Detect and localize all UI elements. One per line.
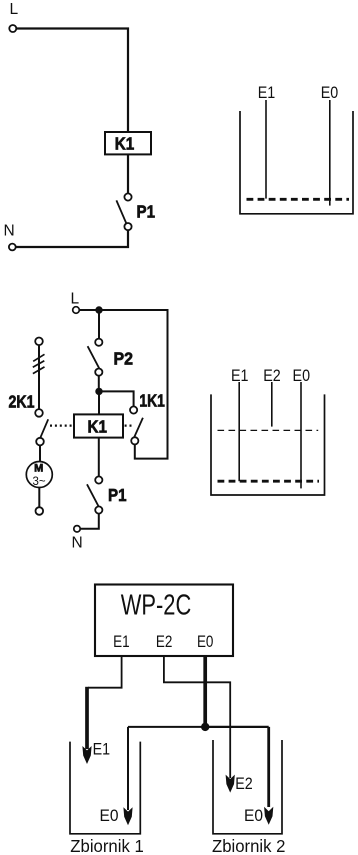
wire P2 to coil junction [98,376,100,392]
wire L feeder circuit2 [79,309,99,311]
relay coil K1 circuit1 [105,132,151,154]
terminal N circuit2 [74,526,80,532]
wire coil K1 to switch P1 [127,154,129,193]
wire 3-phase supply [38,345,40,409]
svg-text:Zbiornik 2: Zbiornik 2 [212,836,285,855]
terminal motor bottom [36,507,44,515]
svg-text:P1: P1 [137,202,156,222]
wire bypass branch [99,310,168,459]
wire E1 output [88,656,122,688]
svg-text:E2: E2 [235,775,253,793]
svg-text:P1: P1 [108,485,127,505]
svg-text:L: L [71,291,80,308]
3-phase slash marks [33,354,45,373]
svg-text:M: M [34,463,43,475]
electrode E1 tankB [238,382,240,481]
wire L to coil K1 [16,29,128,133]
upper water level tankB [218,429,319,431]
svg-text:E0: E0 [100,807,119,825]
svg-text:N: N [4,222,15,239]
terminal L circuit1 [9,25,16,32]
svg-text:E1: E1 [93,740,111,758]
wire P1 to N circuit2 [80,514,99,529]
bus E0 left [128,726,205,728]
arrowhead E1 [82,746,91,764]
probe lead E1 thick [85,687,89,749]
svg-text:N: N [72,535,83,552]
terminal L circuit2 [73,307,80,314]
controller box WP-2C [95,585,233,657]
terminal N circuit1 [9,244,16,251]
junction coil node [95,388,102,395]
svg-text:3~: 3~ [32,476,45,488]
switch P1 circuit2 [87,476,102,513]
switch P1 circuit1 [116,193,131,230]
motor M 3~ [26,462,52,488]
water level tankA [247,198,350,201]
svg-text:E1: E1 [258,84,276,102]
terminal 2K1 supply [35,338,43,346]
wire coil K1 to P1 circuit2 [98,438,100,477]
wire E0 down tank2 [267,727,270,807]
svg-text:2K1: 2K1 [9,392,35,412]
switch P2 [88,339,103,376]
svg-text:P2: P2 [114,349,134,369]
wire junction to contact 1K1 [99,391,134,406]
electrode E0 tankA [329,100,331,206]
arrowhead E0 tank1 [123,807,132,825]
wire 2K1 to motor [39,446,41,462]
svg-text:L: L [10,1,19,18]
svg-text:E0: E0 [197,632,214,651]
svg-text:E1: E1 [113,632,130,651]
wire E0 down tank1 [127,727,129,810]
electrode E2 tankB [271,382,273,427]
lower water level tankB [218,480,320,483]
probe lead E0 thick [203,656,207,727]
svg-text:E0: E0 [244,807,263,825]
electrode E1 tankA [265,100,267,199]
wire P1 to N circuit1 [16,230,128,247]
svg-text:E2: E2 [156,632,173,651]
contact 2K1 [35,409,48,445]
junction E0 [201,723,209,731]
svg-text:1K1: 1K1 [139,390,165,410]
bus E0 right [205,726,269,728]
junction L circuit2 [95,306,102,313]
svg-text:K1: K1 [88,416,108,436]
relay coil K1 circuit2 [74,414,123,437]
linkage dotted left [50,425,73,427]
wire junction to P2 [98,310,100,339]
svg-text:WP-2C: WP-2C [121,590,192,622]
wire junction to coil K1 circuit2 [98,391,100,414]
arrowhead E2 [226,775,235,793]
tank 1 walls [70,742,140,834]
tank A walls [240,111,353,214]
svg-text:E0: E0 [321,84,339,102]
svg-text:K1: K1 [115,134,135,154]
wire motor to terminal [38,488,40,508]
linkage dotted right [125,425,132,427]
arrowhead E0 tank2 [264,807,273,825]
wire E2 output [164,656,230,778]
contact 1K1 [130,406,143,444]
tank B walls [211,394,325,495]
tank 2 walls [213,740,282,834]
electrode E0 tankB [300,382,302,488]
svg-text:Zbiornik 1: Zbiornik 1 [70,836,144,855]
